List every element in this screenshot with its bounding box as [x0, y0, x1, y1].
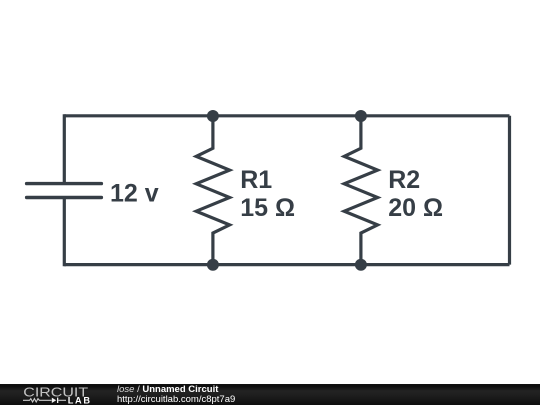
- logo wire + resistor zigzag: [23, 399, 52, 402]
- logo wire after diode: [58, 399, 66, 401]
- capacitor V1 plate top: [27, 182, 102, 185]
- logo diode: [52, 398, 56, 403]
- node dot R1 top: [207, 110, 219, 122]
- url line: [117, 395, 235, 405]
- svg-text:R1: R1: [240, 166, 272, 194]
- wire top: [64, 114, 509, 117]
- node dot R2 bottom: [355, 259, 367, 271]
- svg-text:15 Ω: 15 Ω: [240, 194, 295, 222]
- circuitlab logo: [0, 384, 110, 405]
- node dot R1 bottom: [207, 259, 219, 271]
- title line: [117, 385, 235, 395]
- wire bottom: [64, 263, 509, 266]
- footer text: [117, 385, 235, 405]
- wire left bottom: [63, 198, 66, 267]
- wire left top: [63, 114, 66, 183]
- svg-text:R2: R2: [388, 166, 420, 194]
- resistor R1: [196, 116, 229, 265]
- svg-text:12 v: 12 v: [110, 179, 159, 207]
- logo diode bar: [57, 398, 58, 403]
- footer bar: [0, 384, 540, 405]
- svg-text:LAB: LAB: [68, 396, 91, 405]
- resistor R2: [344, 116, 377, 265]
- node dot R2 top: [355, 110, 367, 122]
- capacitor V1 plate bottom: [27, 196, 102, 199]
- wire right: [508, 116, 511, 265]
- svg-text:20 Ω: 20 Ω: [388, 194, 443, 222]
